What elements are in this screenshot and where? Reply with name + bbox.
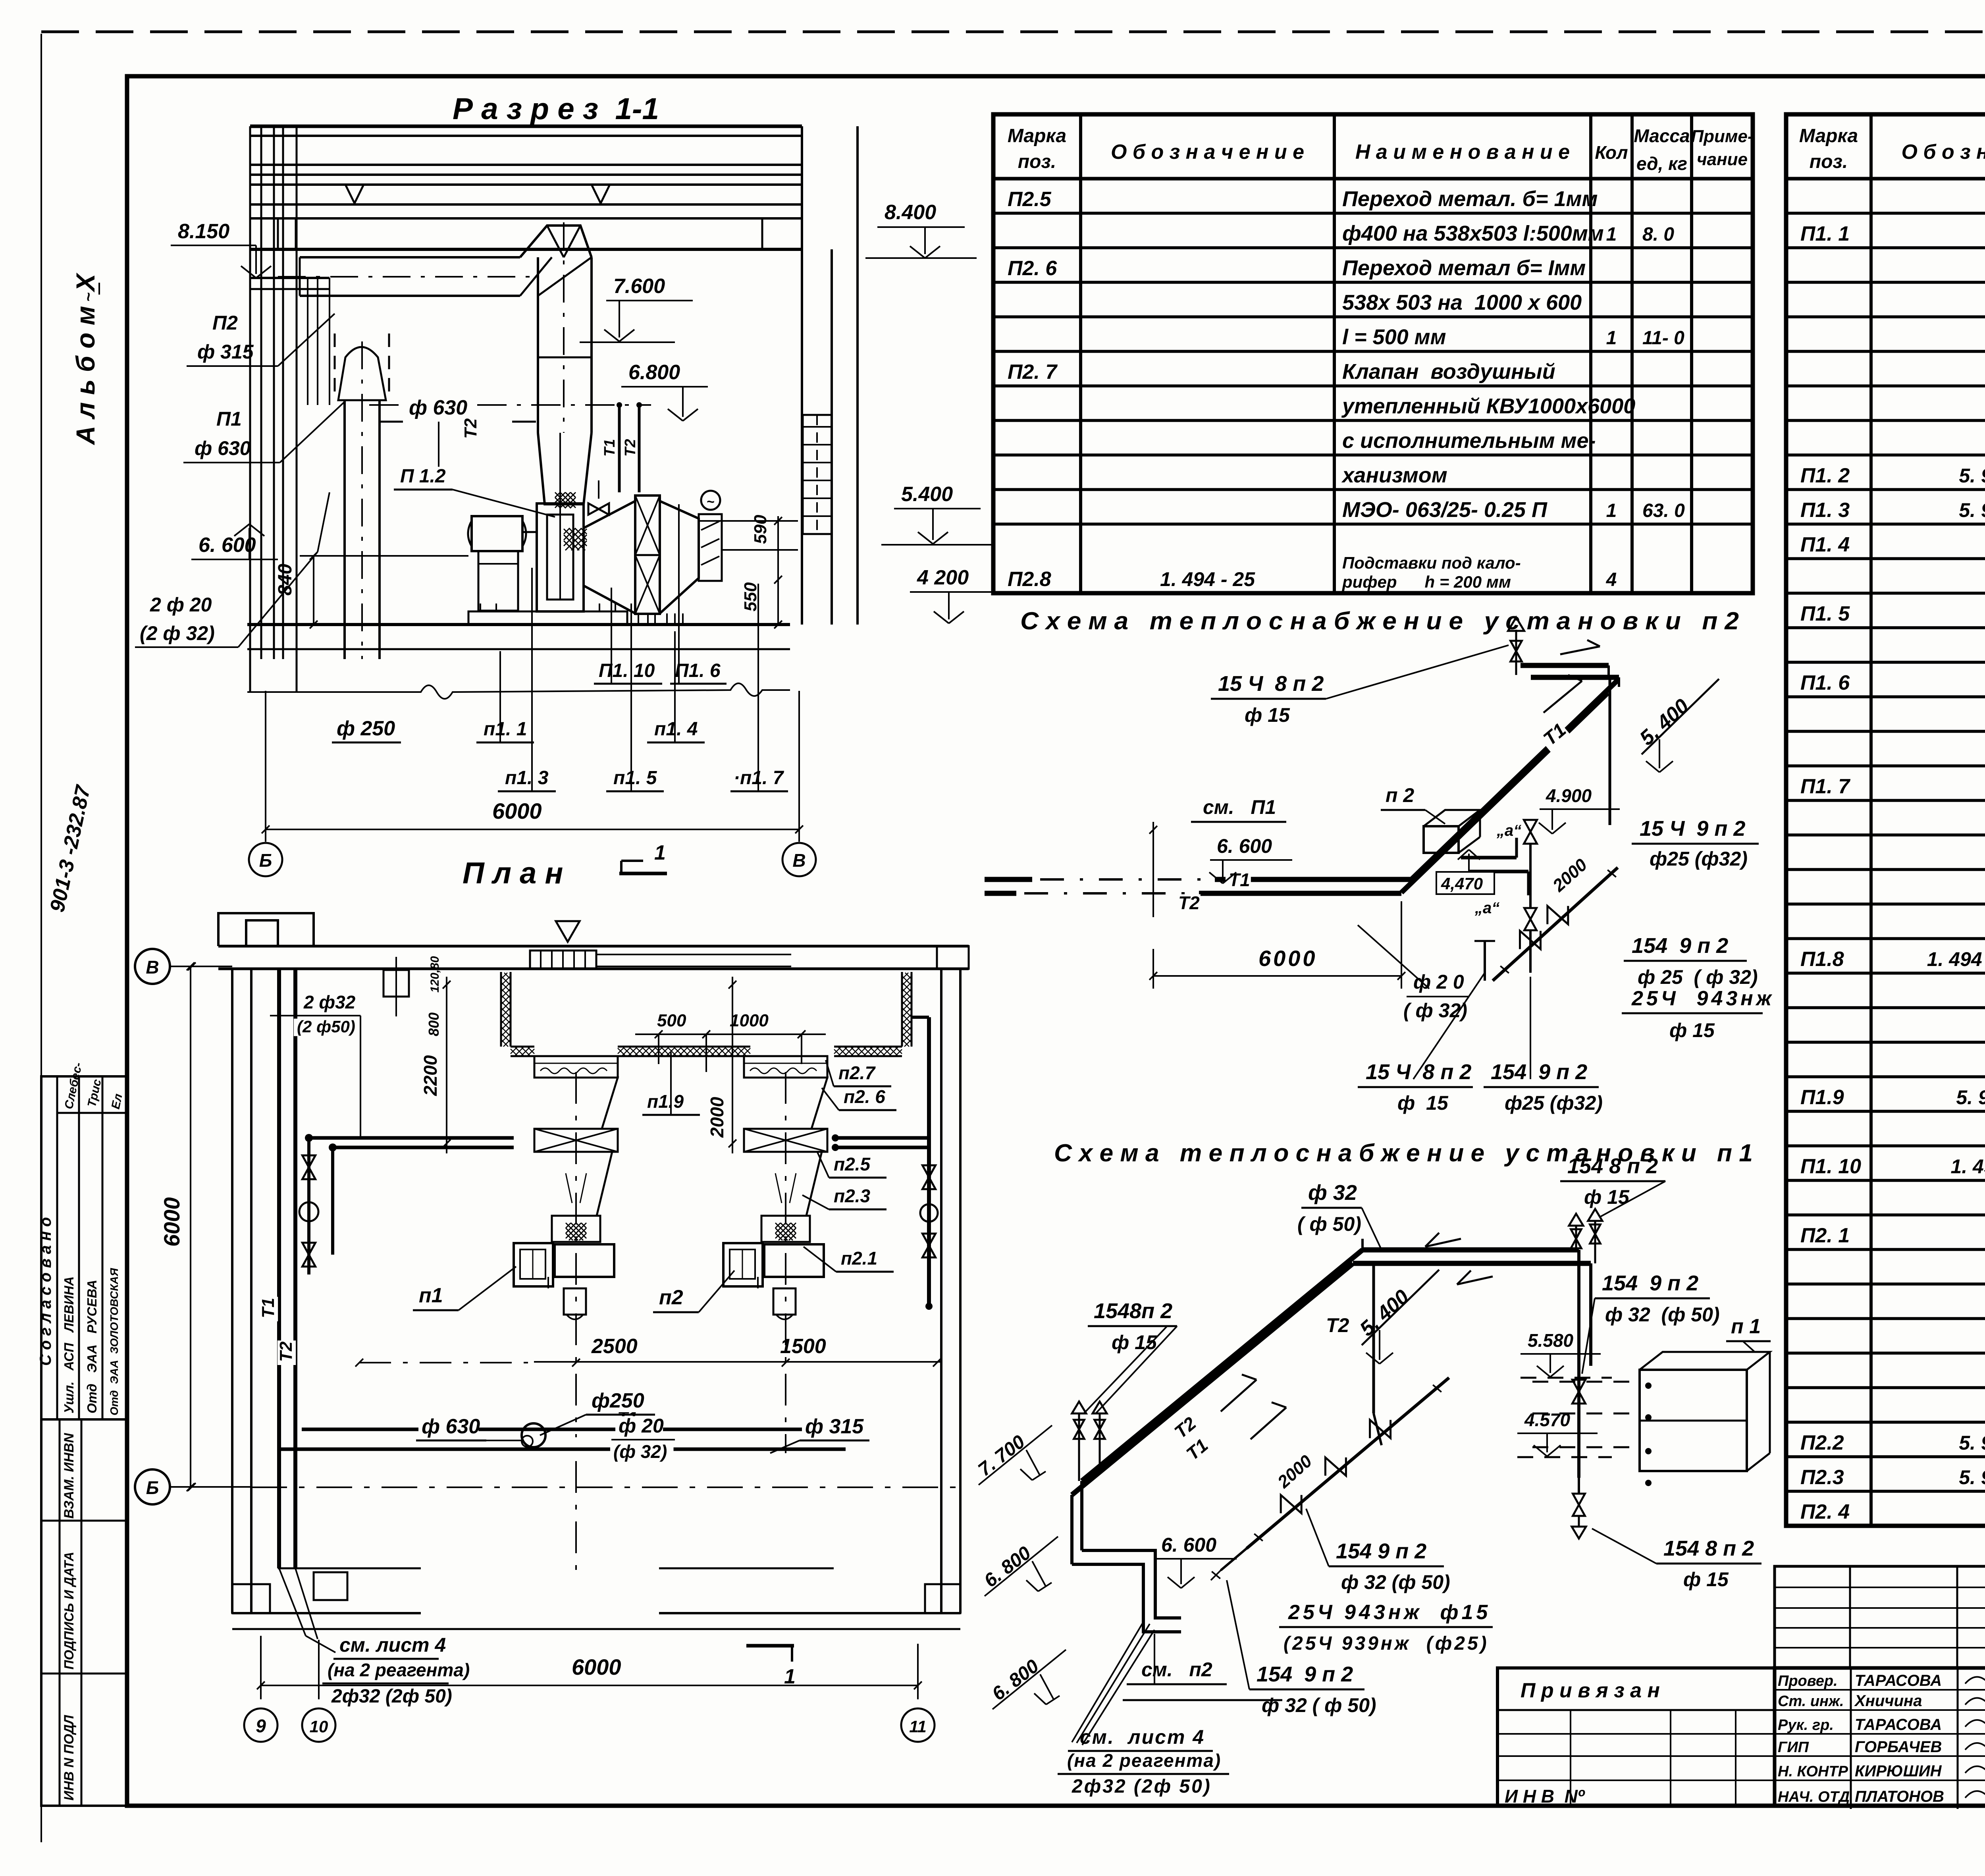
flexible insert П1.2 hatch bbox=[564, 528, 587, 550]
svg-text:поз.: поз. bbox=[1810, 151, 1848, 172]
plan section cut mark bottom bbox=[746, 1644, 794, 1648]
svg-text:п2.5: п2.5 bbox=[834, 1154, 871, 1174]
svg-text:154 9 п 2: 154 9 п 2 bbox=[1491, 1060, 1587, 1084]
ceiling support haunch left bbox=[277, 218, 279, 249]
svg-text:Т2: Т2 bbox=[1178, 893, 1200, 913]
heater legs bbox=[638, 614, 639, 625]
svg-text:Переход метал. б= 1мм: Переход метал. б= 1мм bbox=[1342, 187, 1598, 211]
svg-text:п 2: п 2 bbox=[1386, 784, 1414, 806]
svg-text:6.800: 6.800 bbox=[628, 361, 680, 384]
П2 right vertical drop bbox=[1609, 675, 1611, 825]
label П1.2 with leader bbox=[397, 467, 453, 487]
signature squiggles bbox=[1965, 1677, 1985, 1689]
П1 left step down bbox=[1082, 1550, 1181, 1618]
П1 air valves left bbox=[1072, 1402, 1086, 1413]
plan axis dim 6000 left bbox=[190, 966, 191, 1487]
plan heating stubs to П1 bbox=[309, 1136, 514, 1140]
svg-text:см. лист 4: см. лист 4 bbox=[339, 1634, 446, 1656]
vertical duct from elbow bbox=[537, 257, 539, 433]
svg-text:рифер h = 200 мм: рифер h = 200 мм bbox=[1342, 573, 1511, 591]
unit П1 flexible insert hatch bbox=[552, 1216, 600, 1242]
П2 dim 6000 bbox=[1153, 975, 1401, 977]
svg-text:Т2: Т2 bbox=[276, 1341, 296, 1362]
svg-text:Марка: Марка bbox=[1799, 125, 1858, 147]
П2 lower diagonal branch bbox=[1493, 868, 1618, 981]
svg-text:Б: Б bbox=[259, 850, 272, 871]
plan pipe valves right side bbox=[923, 1165, 936, 1177]
svg-text:ф250: ф250 bbox=[592, 1389, 644, 1412]
svg-text:Б: Б bbox=[146, 1477, 159, 1498]
plan top-right pilaster bbox=[937, 946, 969, 969]
svg-text:Переход метал б= Iмм: Переход метал б= Iмм bbox=[1342, 256, 1586, 280]
svg-text:Т1: Т1 bbox=[601, 439, 618, 457]
П2 2000 dim diagonal bbox=[1548, 856, 1592, 898]
plan dim 6000 bottom bbox=[261, 1685, 918, 1686]
svg-text:1000: 1000 bbox=[730, 1011, 769, 1030]
plan ф250 circle bbox=[522, 1423, 545, 1447]
plan right side riser bbox=[927, 1017, 931, 1306]
svg-text:с исполнительным ме-: с исполнительным ме- bbox=[1342, 429, 1596, 453]
П1 dashed connections to box bbox=[1532, 1381, 1640, 1383]
svg-text:п1. 4: п1. 4 bbox=[654, 719, 698, 740]
П2 branch pipes at unit bbox=[1461, 856, 1517, 860]
svg-text:15 Ч 8 п 2: 15 Ч 8 п 2 bbox=[1218, 672, 1324, 696]
svg-text:500: 500 bbox=[657, 1011, 686, 1030]
svg-text:6. 600: 6. 600 bbox=[1161, 1534, 1216, 1556]
svg-text:1: 1 bbox=[1606, 500, 1617, 521]
plan branch risers to П1 with valves bbox=[307, 1138, 310, 1274]
П1 bottom valve under riser bbox=[1573, 1494, 1585, 1505]
axis circle Б section bbox=[249, 843, 282, 876]
svg-text:Рук. гр.: Рук. гр. bbox=[1778, 1717, 1834, 1733]
plan top wall window with ticks bbox=[530, 951, 596, 969]
plan bottom-left pilaster bbox=[232, 1584, 270, 1613]
duct drop from wall (П2 branch) bbox=[334, 334, 336, 400]
svg-text:Т2: Т2 bbox=[461, 418, 480, 439]
duct elbow up bbox=[520, 226, 592, 257]
svg-text:Хничина: Хничина bbox=[1854, 1692, 1922, 1710]
svg-text:ф 15: ф 15 bbox=[1683, 1568, 1729, 1591]
svg-text:ПОДПИСЬ И ДАТА: ПОДПИСЬ И ДАТА bbox=[62, 1552, 76, 1670]
svg-text:Подставки под кало-: Подставки под кало- bbox=[1342, 553, 1521, 572]
plan axis circles 9 10 11 bbox=[244, 1708, 278, 1742]
svg-text:П1. 3: П1. 3 bbox=[1800, 499, 1850, 522]
label ф630 duct dash bbox=[406, 397, 466, 419]
svg-text:ф 315: ф 315 bbox=[197, 341, 254, 363]
П2 T1 label diagonal bbox=[1538, 720, 1571, 752]
П2 N-valves on lower diagonal bbox=[1520, 931, 1541, 949]
plan lower pipe runs bbox=[575, 1072, 577, 1437]
svg-text:6. 600: 6. 600 bbox=[198, 534, 256, 557]
П1 unit box 3D bbox=[1640, 1370, 1747, 1471]
svg-text:1500: 1500 bbox=[780, 1335, 826, 1358]
svg-text:О б о з н а ч е н и е: О б о з н а ч е н и е bbox=[1901, 141, 1985, 164]
svg-text:ф 20: ф 20 bbox=[619, 1415, 664, 1437]
valve on fan inlet bbox=[588, 503, 599, 515]
T1 T2 risers to fan bbox=[618, 405, 621, 492]
П1 right risers bbox=[1577, 1250, 1580, 1478]
svg-text:ф 630: ф 630 bbox=[409, 396, 467, 419]
П2 main diagonal Т1 bbox=[1411, 680, 1618, 879]
svg-text:ИНВ N ПОДЛ: ИНВ N ПОДЛ bbox=[62, 1715, 77, 1801]
svg-text:ф 15: ф 15 bbox=[1669, 1019, 1715, 1041]
end grille with slashes П1.7 bbox=[699, 514, 722, 581]
svg-text:6000: 6000 bbox=[159, 1197, 184, 1247]
svg-text:5. 904 -5: 5. 904 -5 bbox=[1959, 1432, 1985, 1454]
dim 590 550 right bbox=[722, 549, 798, 551]
svg-text:п2: п2 bbox=[659, 1286, 683, 1309]
right spec table outer border bbox=[1786, 114, 1985, 1526]
air intake grille П1.8 bbox=[803, 415, 832, 534]
svg-text:( ф 32): ( ф 32) bbox=[1403, 999, 1467, 1022]
plan bottom-right pilaster bbox=[925, 1584, 960, 1613]
svg-text:(25Ч 939нж (ф25): (25Ч 939нж (ф25) bbox=[1284, 1633, 1489, 1654]
left spec table header row bbox=[993, 177, 1753, 181]
ceiling rib notch 1 bbox=[345, 185, 364, 203]
svg-text:154 9 п 2: 154 9 п 2 bbox=[1336, 1539, 1426, 1563]
svg-text:ф 15: ф 15 bbox=[1112, 1331, 1157, 1353]
svg-text:154 9 п 2: 154 9 п 2 bbox=[1602, 1271, 1698, 1295]
svg-text:(2 ф 32): (2 ф 32) bbox=[140, 622, 215, 644]
unit П1 motor plan bbox=[564, 1288, 586, 1315]
plan wall pendant column bbox=[384, 970, 409, 997]
П2 T1 T2 labels horizontal bbox=[1226, 871, 1251, 890]
duct centerline bbox=[278, 276, 532, 278]
svg-text:Т2: Т2 bbox=[622, 439, 639, 457]
title block main lower part bbox=[1775, 1668, 1985, 1806]
П2 horizontal Т2 run left bbox=[985, 891, 1016, 896]
П1 spare underline bbox=[1123, 1699, 1282, 1701]
svg-text:2ф32 (2ф 50): 2ф32 (2ф 50) bbox=[331, 1686, 452, 1707]
unit П2 diffuser bbox=[750, 1152, 822, 1216]
plan intake chamber right wall insulated bbox=[901, 972, 903, 1047]
axis circle В section bbox=[782, 843, 816, 876]
plan dim 2500 1500 bbox=[534, 1361, 941, 1363]
svg-text:(на 2 реагента): (на 2 реагента) bbox=[328, 1660, 470, 1680]
svg-text:ед, кг: ед, кг bbox=[1636, 153, 1687, 174]
motor symbol circle bbox=[701, 491, 720, 510]
plan bottom wall segments bbox=[232, 1612, 421, 1614]
left attachment box Привязан bbox=[1497, 1668, 1775, 1806]
svg-text:2ф32 (2ф 50): 2ф32 (2ф 50) bbox=[1072, 1776, 1212, 1797]
svg-text:(2 ф50): (2 ф50) bbox=[297, 1017, 355, 1036]
svg-text:П2. 1: П2. 1 bbox=[1800, 1224, 1850, 1247]
svg-text:П1. 5: П1. 5 bbox=[1800, 602, 1850, 625]
svg-text:4: 4 bbox=[1606, 569, 1617, 590]
svg-text:Т1: Т1 bbox=[258, 1298, 278, 1318]
svg-text:8.400: 8.400 bbox=[885, 201, 936, 224]
svg-text:п2. 6: п2. 6 bbox=[844, 1086, 885, 1107]
plan left wall bbox=[231, 969, 233, 1613]
svg-text:Т1: Т1 bbox=[1229, 870, 1250, 890]
left wall below floor bbox=[249, 659, 251, 692]
П2 flow arrow top bbox=[1560, 646, 1600, 654]
unit П2 fan scroll bbox=[723, 1243, 763, 1286]
svg-text:Приме-: Приме- bbox=[1691, 127, 1753, 146]
svg-text:~: ~ bbox=[707, 494, 715, 509]
unit П1 flexible collar bbox=[534, 1056, 618, 1078]
svg-text:538х 503 на 1000 х 600: 538х 503 на 1000 х 600 bbox=[1342, 291, 1582, 314]
svg-text:11- 0: 11- 0 bbox=[1642, 328, 1684, 349]
plan top wall lintel band bbox=[596, 954, 791, 955]
svg-text:П2.3: П2.3 bbox=[1800, 1466, 1844, 1489]
diffuser cone bbox=[584, 501, 635, 613]
left wall column lines bbox=[249, 126, 251, 659]
svg-text:И Н В Nº: И Н В Nº bbox=[1505, 1786, 1585, 1807]
plan top wall bbox=[218, 945, 969, 948]
svg-text:П1. 1: П1. 1 bbox=[1800, 222, 1850, 245]
П1 flow arrows diagonal bbox=[1221, 1380, 1257, 1411]
svg-text:63. 0: 63. 0 bbox=[1642, 500, 1685, 521]
section ceiling slab lines bbox=[250, 125, 802, 128]
svg-text:ГИП: ГИП bbox=[1778, 1739, 1809, 1756]
svg-text:Ушл. АСП ЛЕВИНА: Ушл. АСП ЛЕВИНА bbox=[62, 1276, 76, 1413]
svg-text:Н а и м е н о в а н и е: Н а и м е н о в а н и е bbox=[1355, 141, 1570, 164]
svg-text:ф 630: ф 630 bbox=[195, 437, 251, 459]
svg-text:Ст. инж.: Ст. инж. bbox=[1778, 1693, 1844, 1710]
svg-text:ф 32 ( ф 50): ф 32 ( ф 50) bbox=[1262, 1694, 1376, 1716]
П1 mid diagonal lower end bbox=[1221, 1548, 1247, 1570]
svg-text:550: 550 bbox=[741, 582, 760, 611]
title block upper small table bbox=[1775, 1566, 1985, 1668]
svg-text:П2.8: П2.8 bbox=[1008, 568, 1051, 591]
unit П2 valve box with X bbox=[744, 1129, 827, 1152]
svg-text:ТАРАСОВА: ТАРАСОВА bbox=[1855, 1672, 1942, 1689]
svg-text:Марка: Марка bbox=[1008, 125, 1066, 147]
svg-text:П1.8: П1.8 bbox=[1800, 948, 1844, 971]
unit П1 diffuser bbox=[540, 1152, 612, 1216]
svg-text:9: 9 bbox=[256, 1716, 266, 1736]
П1 mid vertical T2 drop bbox=[1372, 1263, 1375, 1413]
svg-text:П л а н: П л а н bbox=[463, 856, 563, 890]
svg-text:П1. 6: П1. 6 bbox=[1800, 671, 1850, 694]
floor slab 4.200 bbox=[247, 623, 790, 626]
svg-text:п2.3: п2.3 bbox=[834, 1186, 870, 1206]
svg-text:4.900: 4.900 bbox=[1546, 785, 1592, 806]
svg-text:ф 315: ф 315 bbox=[805, 1415, 864, 1438]
svg-text:КИРЮШИН: КИРЮШИН bbox=[1855, 1762, 1942, 1780]
plan bottom foundation lines bbox=[278, 1568, 421, 1569]
svg-text:чание: чание bbox=[1697, 150, 1748, 169]
П1 diagonal labels bbox=[1169, 1413, 1201, 1444]
svg-text:С х е м а т е п л о с н а б: С х е м а т е п л о с н а б ж е н и е у … bbox=[1020, 607, 1739, 635]
П1 N-valves mid diagonal bbox=[1281, 1495, 1301, 1513]
plan north pointer triangle bbox=[556, 921, 580, 942]
svg-text:ф400 на 538х503 l:500мм: ф400 на 538х503 l:500мм bbox=[1342, 222, 1604, 245]
svg-text:ТАРАСОВА: ТАРАСОВА bbox=[1855, 1716, 1942, 1733]
П1 top horizontal pipes bbox=[1363, 1247, 1579, 1253]
right spec table column lines bbox=[1869, 114, 1873, 1526]
section cut mark top bbox=[619, 872, 667, 875]
svg-text:~: ~ bbox=[80, 293, 97, 302]
svg-text:11: 11 bbox=[909, 1717, 927, 1736]
svg-text:П1.9: П1.9 bbox=[1800, 1086, 1844, 1109]
plan intake chamber left wall insulated bbox=[500, 972, 502, 1047]
svg-text:П1. 6: П1. 6 bbox=[675, 660, 721, 681]
svg-text:П 1.2: П 1.2 bbox=[400, 466, 446, 487]
П2 valve chain vertical a bbox=[1524, 820, 1537, 832]
right spec table header row bbox=[1786, 177, 1985, 181]
unit П2 intake funnel bbox=[744, 1078, 827, 1129]
plan dim 2000 vertical bbox=[732, 977, 733, 1153]
П1 leaders to see sheet4 bbox=[1072, 1622, 1143, 1742]
svg-text:П2: П2 bbox=[212, 312, 238, 334]
round stack ф250 pipe bbox=[343, 400, 346, 659]
svg-text:590: 590 bbox=[751, 515, 770, 544]
svg-text:ф 630: ф 630 bbox=[422, 1415, 480, 1438]
svg-text:П2.2: П2.2 bbox=[1800, 1431, 1844, 1454]
П2 vertical stub below bbox=[1484, 941, 1486, 981]
svg-text:см. п2: см. п2 bbox=[1141, 1658, 1212, 1681]
svg-text:Масса: Масса bbox=[1634, 125, 1690, 146]
left spec table column lines bbox=[1079, 114, 1082, 593]
svg-text:6000: 6000 bbox=[1258, 946, 1318, 971]
svg-text:1. 494 - 27 В.7: 1. 494 - 27 В.7 bbox=[1927, 948, 1985, 970]
left wall ledge bbox=[250, 277, 330, 279]
svg-text:П р и в я з а н: П р и в я з а н bbox=[1521, 1679, 1660, 1702]
page trim line left bbox=[40, 34, 42, 1842]
left spec table outer border bbox=[993, 114, 1753, 593]
fan base frame bbox=[468, 611, 627, 624]
unit П1 fan scroll bbox=[514, 1243, 553, 1286]
svg-text:ГОРБАЧЕВ: ГОРБАЧЕВ bbox=[1855, 1738, 1942, 1756]
svg-text:1. 494 - 25: 1. 494 - 25 bbox=[1950, 1155, 1985, 1178]
svg-text:п1. 3: п1. 3 bbox=[505, 767, 549, 789]
П2 boxed 4,470 bbox=[1436, 872, 1494, 894]
fan casing bbox=[537, 503, 584, 611]
svg-text:п2.1: п2.1 bbox=[841, 1248, 877, 1269]
flexible insert П1.2 top hatch bbox=[555, 492, 576, 508]
svg-text:П1. 7: П1. 7 bbox=[1800, 775, 1850, 798]
svg-text:П2. 7: П2. 7 bbox=[1008, 361, 1058, 384]
svg-text:Т2: Т2 bbox=[1326, 1314, 1349, 1336]
svg-text:6000: 6000 bbox=[572, 1654, 621, 1679]
svg-text:ф25 (ф32): ф25 (ф32) bbox=[1505, 1092, 1603, 1114]
svg-text:Н. КОНТР: Н. КОНТР bbox=[1778, 1763, 1848, 1780]
svg-text:С о г л а с о в а н о: С о г л а с о в а н о bbox=[37, 1217, 54, 1366]
svg-text:ф 15: ф 15 bbox=[1245, 704, 1290, 726]
unit П1 valve box with X bbox=[534, 1129, 618, 1152]
П1 valve on right riser bbox=[1573, 1380, 1586, 1392]
plan axis line Б dashdot bbox=[251, 1487, 960, 1488]
svg-text:2 ф32: 2 ф32 bbox=[303, 992, 356, 1012]
svg-text:П1. 2: П1. 2 bbox=[1800, 464, 1850, 487]
svg-text:ханизмом: ханизмом bbox=[1341, 463, 1447, 487]
right column bbox=[801, 249, 803, 625]
svg-text:7.600: 7.600 bbox=[613, 275, 665, 298]
svg-text:( ф 50): ( ф 50) bbox=[1297, 1213, 1361, 1235]
svg-text:п1: п1 bbox=[419, 1284, 443, 1307]
П2 main diagonal Т2 bbox=[1401, 693, 1608, 893]
П1 air valves right top bbox=[1569, 1214, 1583, 1226]
svg-text:Провер.: Провер. bbox=[1778, 1673, 1838, 1689]
svg-text:П1: П1 bbox=[216, 408, 242, 430]
floor break line bbox=[247, 683, 790, 699]
svg-text:1: 1 bbox=[1606, 224, 1617, 245]
unit П1 intake funnel bbox=[534, 1078, 618, 1129]
svg-text:ВЗАМ. ИНВN: ВЗАМ. ИНВN bbox=[62, 1433, 77, 1519]
svg-text:Клапан воздушный: Клапан воздушный bbox=[1342, 360, 1555, 384]
svg-text:25Ч 943нж ф15: 25Ч 943нж ф15 bbox=[1288, 1601, 1491, 1624]
svg-text:см. П1: см. П1 bbox=[1203, 796, 1276, 818]
svg-text:ф 25 ( ф 32): ф 25 ( ф 32) bbox=[1638, 966, 1758, 988]
П1 left risers down bbox=[1080, 1481, 1083, 1550]
svg-text:Отд ЭАА ЗОЛОТОВСКАЯ: Отд ЭАА ЗОЛОТОВСКАЯ bbox=[108, 1268, 120, 1415]
svg-text:см. лист 4: см. лист 4 bbox=[1080, 1726, 1205, 1748]
svg-text:1: 1 bbox=[784, 1665, 796, 1688]
svg-text:6. 600: 6. 600 bbox=[1217, 835, 1272, 857]
svg-text:„а“: „а“ bbox=[1496, 822, 1521, 839]
plan intake chamber bottom wall insulated bbox=[511, 1046, 534, 1048]
svg-text:В: В bbox=[146, 957, 159, 978]
svg-text:п 1: п 1 bbox=[1731, 1315, 1761, 1338]
svg-text:5.400: 5.400 bbox=[901, 483, 953, 506]
svg-text:П1. 4: П1. 4 bbox=[1800, 533, 1850, 556]
svg-text:МЭО- 063/25- 0.25 П: МЭО- 063/25- 0.25 П bbox=[1342, 498, 1548, 522]
svg-text:154 9 п 2: 154 9 п 2 bbox=[1257, 1662, 1353, 1686]
svg-text:П2.5: П2.5 bbox=[1008, 188, 1052, 211]
dim 840 vertical bbox=[300, 555, 468, 557]
plan heating mains vertical Т1 Т2 bbox=[277, 970, 281, 1568]
svg-text:154 9 п 2: 154 9 п 2 bbox=[1632, 934, 1728, 958]
unit П2 motor plan bbox=[773, 1288, 796, 1315]
duct transition to fan bbox=[538, 433, 592, 504]
T2 label on duct bbox=[462, 417, 480, 442]
svg-text:ф25 (ф32): ф25 (ф32) bbox=[1650, 848, 1748, 870]
svg-text:п1. 5: п1. 5 bbox=[613, 767, 657, 789]
svg-text:ПЛАТОНОВ: ПЛАТОНОВ bbox=[1855, 1788, 1944, 1805]
svg-text:2000: 2000 bbox=[707, 1097, 727, 1138]
svg-text:1: 1 bbox=[1606, 328, 1617, 349]
svg-text:П2. 4: П2. 4 bbox=[1800, 1500, 1850, 1523]
svg-text:ф 250: ф 250 bbox=[337, 717, 395, 740]
svg-text:2200: 2200 bbox=[420, 1055, 441, 1096]
П1 flow arrows top bbox=[1425, 1239, 1461, 1247]
unit П2 flexible insert hatch bbox=[761, 1216, 810, 1242]
svg-text:1: 1 bbox=[654, 841, 666, 864]
svg-text:(ф 32): (ф 32) bbox=[613, 1441, 667, 1462]
svg-text:(на 2 реагента): (на 2 реагента) bbox=[1067, 1750, 1221, 1771]
svg-text:ф 32 (ф 50): ф 32 (ф 50) bbox=[1341, 1571, 1450, 1593]
svg-text:п2.7: п2.7 bbox=[838, 1062, 876, 1083]
svg-text:5. 904 - 4: 5. 904 - 4 bbox=[1956, 1086, 1985, 1109]
plan T1 T2 riser labels bbox=[260, 1297, 278, 1321]
svg-text:5. 904 -5: 5. 904 -5 bbox=[1959, 499, 1985, 521]
plan heating stubs to П2 bbox=[835, 1136, 929, 1140]
heater КСК frame П1.4 bbox=[635, 496, 660, 614]
plan right wall bbox=[940, 969, 942, 1613]
П2 flow arrow diagonal bbox=[1544, 681, 1582, 713]
motor stand bbox=[478, 551, 518, 611]
svg-text:ф 15: ф 15 bbox=[1397, 1092, 1449, 1114]
svg-text:„а“: „а“ bbox=[1474, 899, 1499, 917]
svg-text:8. 0: 8. 0 bbox=[1642, 224, 1674, 245]
П1 main diagonal Т2 Т1 bbox=[1082, 1250, 1363, 1481]
approval stamp Согласовано bbox=[41, 1076, 127, 1419]
plan pipe bottom horizontal T1 T2 bbox=[302, 1428, 826, 1431]
svg-text:поз.: поз. bbox=[1018, 151, 1056, 172]
signature rows bbox=[1775, 1689, 1985, 1691]
plan dim 2200 vertical bbox=[446, 977, 447, 1153]
svg-text:2500: 2500 bbox=[591, 1335, 638, 1358]
ceiling rib notch 2 bbox=[592, 185, 610, 203]
svg-text:800: 800 bbox=[426, 1012, 442, 1036]
svg-text:НАЧ. ОТД: НАЧ. ОТД bbox=[1778, 1789, 1850, 1805]
round stack ф250 bellmouth bbox=[338, 347, 386, 400]
svg-text:5.580: 5.580 bbox=[1528, 1330, 1574, 1351]
svg-text:ф 32: ф 32 bbox=[1308, 1181, 1357, 1205]
svg-text:25Ч 943нж: 25Ч 943нж bbox=[1631, 987, 1775, 1010]
